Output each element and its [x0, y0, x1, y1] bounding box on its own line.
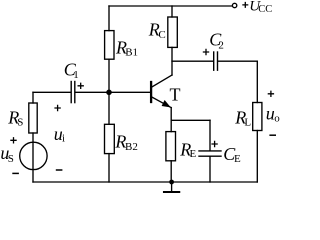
wire RC bottom lead / collector column — [171, 47, 173, 75]
wire top rail — [109, 5, 232, 7]
svg-text:1: 1 — [73, 69, 79, 81]
svg-text:CC: CC — [258, 4, 272, 15]
resistor RE — [166, 132, 176, 161]
wire RC top lead — [171, 6, 173, 17]
transistor T collector diagonal — [152, 75, 173, 87]
plus RL — [268, 91, 274, 97]
svg-text:S: S — [8, 153, 14, 165]
wire right branch down to RL — [256, 61, 258, 102]
wire RB1 top lead — [108, 6, 110, 31]
resistor RL — [253, 103, 262, 131]
svg-text:L: L — [244, 116, 251, 128]
wire CE bottom lead — [209, 157, 211, 182]
capacitor CE top plate — [199, 150, 221, 152]
wire base node to transistor — [75, 91, 149, 93]
svg-text:2: 2 — [218, 40, 224, 52]
resistor RB2 — [105, 124, 115, 153]
wire bottom rail — [33, 181, 257, 183]
svg-text:E: E — [234, 153, 241, 165]
minus uS — [12, 172, 19, 174]
terminal +UCC circle — [232, 3, 236, 7]
transistor T emitter diagonal — [152, 97, 172, 108]
plus C1 — [78, 83, 84, 89]
wire RS top lead — [32, 92, 34, 103]
ground bar — [164, 191, 179, 193]
plus CE — [211, 141, 217, 147]
capacitor C1 right plate — [74, 82, 76, 103]
svg-text:S: S — [17, 116, 23, 128]
node emitter ground junction dot — [169, 180, 174, 185]
minus ui — [56, 169, 63, 171]
resistor RC — [168, 17, 178, 47]
wire RB2 bottom lead — [108, 154, 110, 182]
svg-text:B2: B2 — [125, 141, 138, 153]
wire CE top lead — [209, 120, 211, 150]
wire RE top lead — [170, 120, 172, 131]
source uS circle — [20, 142, 47, 169]
svg-text:i: i — [62, 133, 65, 145]
plus C2 — [203, 49, 209, 55]
minus RL — [269, 134, 276, 136]
wire C2 to right branch — [218, 60, 257, 62]
wire RS bottom through source to bottom rail — [32, 133, 34, 182]
transistor T base bar — [150, 82, 152, 102]
wire RE bottom lead — [170, 161, 172, 182]
svg-text:C: C — [158, 29, 165, 41]
capacitor C2 right plate — [217, 52, 219, 70]
ground stub — [171, 182, 173, 191]
wire RL bottom lead — [256, 131, 258, 183]
resistor RS — [29, 103, 37, 133]
resistor RB1 — [105, 31, 114, 60]
capacitor CE bottom plate — [199, 155, 221, 157]
plus ui — [54, 105, 60, 111]
wire collector node to C2 — [172, 60, 213, 62]
plus uS — [10, 137, 16, 143]
node base junction dot — [106, 90, 112, 96]
wire emitter vertical — [170, 108, 172, 121]
label +UCC — [242, 2, 248, 8]
capacitor C2 left plate — [213, 52, 215, 70]
wire RB1 bottom lead to base node — [108, 59, 110, 124]
svg-text:B1: B1 — [125, 47, 138, 59]
wire C1 left to RS top — [33, 91, 71, 93]
svg-text:o: o — [274, 112, 280, 124]
svg-text:E: E — [190, 148, 197, 160]
transistor emitter arrowhead — [162, 101, 170, 107]
wire emitter node to CE — [171, 119, 210, 121]
svg-text:T: T — [170, 85, 181, 105]
capacitor C1 left plate — [70, 82, 72, 103]
